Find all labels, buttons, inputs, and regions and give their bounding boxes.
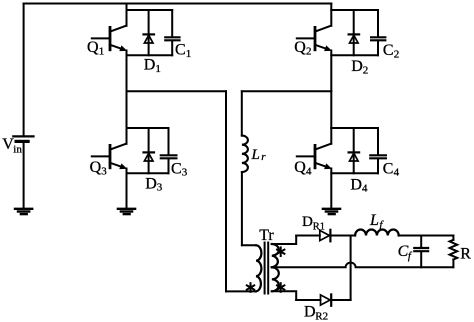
label D1 [144,56,161,74]
svg-text:R: R [460,246,471,263]
wire node A vertical down to primary bottom [225,91,227,291]
label Q2 [294,39,311,57]
wire Q2 cell bottom line [331,54,378,56]
svg-text:C: C [383,42,394,59]
label Vin [2,136,22,155]
diode D2 [349,10,360,55]
svg-text:R2: R2 [315,311,328,322]
wire left vertical from rail to battery [23,4,25,137]
wire Q3 cell bottom line [127,172,169,174]
ground under Q4 [323,209,340,214]
capacitor C4 [370,128,386,173]
diode DR2 [321,294,351,305]
svg-text:Q: Q [294,159,306,176]
svg-text:D: D [145,175,157,192]
svg-text:D: D [350,176,362,193]
battery Vin short plate [16,140,28,143]
svg-text:D: D [144,56,156,73]
label D3 [145,175,163,193]
label DR2 [304,304,328,322]
svg-text:3: 3 [182,167,188,179]
svg-text:3: 3 [101,165,107,177]
wire Q1 cell bottom line [127,54,173,56]
wire Q4 cell bottom line [331,172,378,174]
label C2 [383,42,399,60]
wire to DR2 [296,299,320,301]
transistor Q4 [297,144,332,170]
wire Q3 collector drop [126,128,128,144]
svg-text:Tr: Tr [259,227,274,244]
wire node A horizontal (Q1/Q3 midpoint to transformer) [127,90,227,92]
capacitor C1 [165,10,179,55]
svg-text:4: 4 [362,183,368,195]
polarity dot secondary upper [277,247,284,256]
wire left leg between Q1 and Q3 [126,51,128,129]
wire Q3 cell top line [127,127,169,129]
svg-text:1: 1 [155,63,161,75]
svg-text:4: 4 [306,165,312,177]
capacitor C2 [371,10,385,55]
resistor R [450,236,458,268]
wire secondary bottom lead [272,291,296,300]
wire secondary top lead [272,236,296,245]
svg-text:2: 2 [363,65,369,77]
svg-text:Q: Q [90,159,102,176]
label Q3 [90,159,108,177]
wire Lf to output [399,235,454,237]
wire Q4 emitter to ground [330,169,332,209]
svg-text:C: C [171,160,182,177]
svg-text:1: 1 [186,48,192,60]
svg-text:1: 1 [99,45,105,57]
wire rectifier junction vertical [350,236,352,301]
polarity dot secondary lower [277,283,284,292]
svg-text:r: r [261,151,266,163]
label Cf [398,243,413,262]
inductor Lf [355,229,399,235]
svg-text:Q: Q [294,39,306,56]
diode D4 [349,128,360,173]
svg-text:f: f [408,250,413,262]
wire Q1 cell top line [127,9,173,11]
ground under Q3 [118,209,135,214]
label Lr [251,147,267,163]
svg-text:Q: Q [87,39,99,56]
polarity dot primary [247,283,254,292]
wire top rail [24,3,332,5]
label C3 [171,160,188,178]
wire right bridge leg (Q2 collector drop from rail) [330,4,332,26]
svg-text:D: D [302,214,313,230]
svg-text:D: D [304,304,316,321]
capacitor C3 [161,128,177,173]
label DR1 [302,214,325,232]
transformer Tr primary winding [256,245,261,291]
wire primary bottom lead [226,290,256,292]
diode DR1 [320,230,355,242]
label D2 [351,58,368,76]
wire right leg between Q2 and Q4 [330,51,332,129]
wire Lr to primary top [241,172,243,245]
svg-text:C: C [383,160,394,177]
wire node B horizontal (Q2/Q4 midpoint to Lr) [242,90,331,92]
wire battery to ground [23,142,25,209]
wire left bridge leg (Q1 collector drop from rail) [126,4,128,26]
transformer core [264,243,266,294]
wire Q4 cell top line [331,127,378,129]
svg-text:L: L [251,147,260,163]
svg-text:4: 4 [394,167,400,179]
svg-text:2: 2 [306,45,312,57]
wire center tap line with hop [272,263,454,268]
inductor Lr [242,136,248,172]
wire to DR1 [296,235,320,237]
capacitor Cf [414,236,428,268]
transistor Q1 [92,26,127,51]
transistor Q3 [92,144,127,170]
label C1 [175,41,191,59]
svg-text:L: L [369,212,379,229]
wire Q2 cell top line [331,9,378,11]
ground under Vin [15,209,32,214]
label D4 [350,176,368,194]
label Q1 [87,39,104,57]
label Q4 [294,159,312,177]
transformer Tr secondary lower winding [272,267,279,291]
wire primary top lead [242,244,256,246]
svg-text:3: 3 [157,182,163,194]
svg-text:R1: R1 [313,221,325,232]
wire node B vertical to Lr [241,91,243,135]
svg-text:C: C [175,41,186,58]
label Tr [259,227,274,244]
diode D1 [144,10,155,55]
label Lf [369,212,384,231]
svg-text:2: 2 [394,49,400,61]
diode D3 [144,128,155,173]
label C4 [383,160,400,178]
transistor Q2 [297,26,332,51]
wire Q4 collector drop [330,128,332,144]
svg-text:D: D [351,58,363,75]
wire Q3 emitter to ground [126,169,128,209]
transformer Tr secondary upper winding [272,244,279,267]
label R [460,246,471,263]
svg-text:in: in [13,144,22,156]
battery Vin long plate [13,135,33,137]
